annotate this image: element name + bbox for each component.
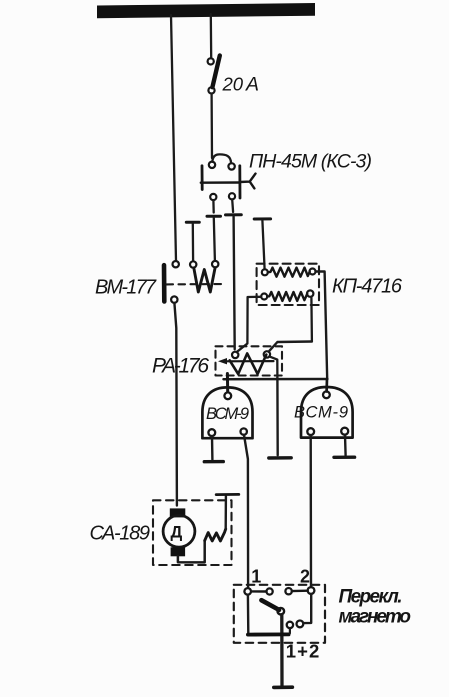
SA-189 series resistor zigzag bbox=[205, 529, 226, 541]
left BCM-9 top contact bbox=[224, 392, 231, 399]
wire 20A switch to PN-45M bbox=[210, 94, 213, 158]
selector common thick bar bbox=[248, 633, 289, 637]
selector contact 1 link bbox=[251, 590, 266, 592]
switch BM-177 actuator bar bbox=[162, 265, 167, 301]
SA-189 motor body bbox=[163, 515, 195, 547]
selector lower-right contact circle bbox=[297, 621, 304, 628]
RA-176 left contact bbox=[232, 352, 238, 358]
right BCM-9 ground cap bbox=[334, 456, 355, 459]
wire bus to BM-177 top contact bbox=[171, 15, 176, 261]
selector center stem bbox=[280, 615, 284, 686]
selector ground cap bbox=[274, 685, 293, 689]
right BCM-9 bottom-left contact bbox=[307, 428, 314, 435]
RA-176 wiper line with arrow bbox=[223, 360, 274, 362]
left BCM-9 bottom-right contact bbox=[241, 428, 247, 434]
svg-text:2: 2 bbox=[300, 566, 310, 586]
BM-177 bottom contact bbox=[171, 296, 177, 302]
left BCM-9 bottom-left contact bbox=[208, 429, 215, 436]
contactor PN-45M upper-right contact bbox=[228, 163, 234, 169]
switch 20A bottom contact bbox=[208, 87, 214, 93]
BM-177 dashed mechanical link bbox=[167, 283, 226, 285]
terminal T under PN-45M left, with cap bbox=[212, 200, 215, 212]
svg-text:ВМ-177: ВМ-177 bbox=[95, 277, 157, 299]
left BCM-9 ground cap bbox=[204, 460, 223, 464]
svg-text:ПН-45М (КС-3): ПН-45М (КС-3) bbox=[249, 151, 372, 173]
contactor PN-45M fork jaw bbox=[240, 174, 256, 189]
contactor PN-45M lower-left contact bbox=[210, 194, 216, 200]
svg-text:Д: Д bbox=[171, 524, 183, 542]
switch 20A blade bbox=[212, 56, 219, 88]
svg-text:ВСМ-9: ВСМ-9 bbox=[294, 404, 348, 422]
SA-189 resistor terminal riser bbox=[224, 496, 227, 529]
contactor PN-45M crossbar bbox=[201, 181, 240, 184]
SA-189 bottom brush bbox=[171, 547, 186, 556]
KP-4716 bottom coil zigzag bbox=[267, 292, 307, 301]
regulator RA-176 dashed outline bbox=[216, 346, 283, 375]
SA-189 terminal cap bbox=[216, 493, 239, 496]
wire BM-177 to starter motor SA-189 bbox=[174, 303, 177, 506]
wire terminal to BM-177 right contact bbox=[214, 218, 215, 261]
selector left return wire bbox=[247, 595, 250, 633]
selector lower-right link to contact 2 bbox=[303, 594, 311, 623]
stub link to left magneto bbox=[226, 374, 229, 392]
svg-text:1: 1 bbox=[251, 566, 261, 586]
KP-4716 top coil right contact bbox=[310, 269, 316, 275]
RA-176 right contact bbox=[264, 351, 270, 357]
contactor PN-45M lower-right contact bbox=[229, 193, 235, 199]
selector contact 2 link bbox=[292, 590, 308, 593]
svg-text:20: 20 bbox=[222, 74, 244, 95]
wire right BCM-9 to magneto switch contact 2 bbox=[310, 435, 313, 587]
selector contact 2 inner circle bbox=[285, 588, 291, 594]
KP-4716 bottom coil right contact bbox=[307, 290, 313, 296]
KP-4716 bottom coil left contact bbox=[261, 294, 267, 300]
selector lower-left contact circle bbox=[287, 622, 293, 628]
contactor PN-45M bridge arc bbox=[212, 154, 231, 163]
right BCM-9 top contact bbox=[323, 391, 330, 398]
right BCM-9 bottom-right contact bbox=[341, 428, 348, 435]
SA-189 bottom wire to resistor bbox=[178, 541, 205, 563]
svg-text:РА-176: РА-176 bbox=[152, 355, 209, 378]
left BCM-9 ground wire bbox=[211, 436, 214, 459]
relay box KP-4716 dashed outline bbox=[257, 264, 319, 305]
right BCM-9 ground wire bbox=[344, 435, 347, 455]
horizontal link wire above magnetos bbox=[224, 378, 328, 381]
magneto BCM-9 left dome bbox=[202, 387, 252, 438]
standalone terminal above KP-4716 coil bbox=[254, 217, 270, 220]
selector contact 1 inner circle bbox=[244, 588, 251, 595]
selector blade pivot circle bbox=[278, 608, 285, 615]
svg-text:1+2: 1+2 bbox=[286, 641, 320, 662]
svg-text:ВСМ-9: ВСМ-9 bbox=[206, 405, 249, 423]
BM-177 right contact bbox=[212, 261, 218, 267]
contactor PN-45M right bar bbox=[238, 166, 241, 198]
RA-176 blade up to KP bottom coil bbox=[269, 342, 312, 352]
wire KP top coil to right magneto BCM-9 bbox=[316, 271, 328, 379]
RA-176 resistor zigzag bbox=[230, 353, 267, 374]
SA-189 top brush bbox=[170, 508, 186, 517]
center ground wire bbox=[276, 378, 279, 456]
contactor PN-45M left bar bbox=[201, 166, 204, 190]
selector blade bbox=[261, 600, 279, 610]
switch 20A (fuse-switch), top contact bbox=[208, 58, 214, 64]
bus bar (power supply bus) bbox=[97, 3, 315, 18]
KP-4716 top coil zigzag bbox=[268, 268, 310, 277]
magneto selector switch dashed outline bbox=[234, 585, 325, 643]
svg-text:КП-4716: КП-4716 bbox=[332, 276, 403, 298]
stub link to right magneto bbox=[325, 379, 328, 392]
wire KP bottom coil right down to RA blade bbox=[310, 297, 313, 342]
BM-177 top contact bbox=[173, 261, 179, 267]
terminal T under PN-45M right, with cap bbox=[231, 200, 234, 213]
KP-4716 top coil left contact bbox=[262, 269, 268, 275]
BM-177 middle contact bbox=[190, 261, 196, 267]
standalone terminal above BM-177 middle contact bbox=[186, 221, 199, 224]
svg-text:СА-189: СА-189 bbox=[90, 523, 151, 545]
wire KP bottom coil to RA-176 left contact bbox=[237, 297, 262, 352]
wire bus to 20A switch bbox=[210, 14, 213, 58]
svg-text:магнето: магнето bbox=[339, 607, 412, 628]
BM-177 spring zigzag bbox=[194, 268, 215, 292]
svg-text:А: А bbox=[245, 74, 259, 96]
svg-text:Перекл.: Перекл. bbox=[339, 586, 403, 607]
wire left BCM-9 to magneto switch contact 1 bbox=[244, 435, 248, 588]
RA-176 branch to center ground wire bbox=[270, 357, 278, 378]
center ground cap bbox=[269, 456, 291, 460]
long wire terminal to RA-176 left contact bbox=[234, 217, 235, 350]
selector contact 1 outer circle bbox=[267, 588, 273, 594]
starter motor SA-189 dashed outline bbox=[153, 500, 232, 565]
magneto BCM-9 right dome bbox=[301, 387, 353, 438]
contactor PN-45M upper-left contact bbox=[209, 162, 215, 168]
selector contact 2 outer circle bbox=[308, 587, 315, 594]
